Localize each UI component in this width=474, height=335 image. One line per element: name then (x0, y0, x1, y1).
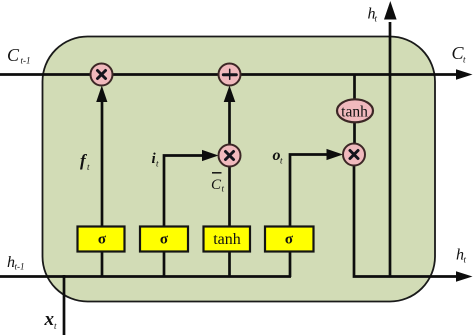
arrowhead h_t right (456, 271, 473, 282)
svg-text:tanh: tanh (213, 231, 241, 248)
sigma box 1 (78, 227, 125, 252)
cell body rounded rectangle (43, 37, 436, 302)
wire: x-circle 3 down and right to h_t output (354, 164, 458, 277)
sigma box 3 (265, 227, 314, 252)
svg-text:t-1: t-1 (21, 56, 31, 66)
wire: box4 up and right to x-circle 3 (290, 155, 328, 228)
svg-text:t: t (464, 255, 467, 265)
svg-text:x: x (44, 309, 55, 330)
svg-text:t: t (54, 321, 57, 331)
x-circle 2 (input gate multiply) (219, 145, 241, 167)
svg-text:σ: σ (285, 232, 294, 248)
svg-text:C: C (211, 177, 222, 193)
arrowhead into x-circle 2 (202, 150, 219, 161)
arrowhead into x-circle 1 (96, 86, 107, 103)
sigma box 2 (140, 227, 188, 252)
arrowhead into x-circle 3 (327, 149, 344, 160)
tanh box (204, 227, 251, 252)
wire: tanh oval to x-circle 3 (353, 122, 356, 146)
wire: box2 up and right to x-circle 2 (164, 156, 204, 228)
wire: h_t up vertical (389, 22, 392, 277)
svg-text:tanh: tanh (341, 104, 368, 121)
wire: C line (top horizontal) (0, 73, 458, 76)
arrowhead into plus circle (224, 86, 236, 103)
arrowhead h_t top (384, 1, 397, 20)
svg-text:t: t (375, 14, 378, 24)
svg-text:σ: σ (98, 232, 107, 248)
plus circle (cell state add) (219, 64, 241, 86)
wire: box1 drop (101, 251, 104, 277)
svg-text:t: t (463, 55, 466, 65)
wire: C line drop to tanh oval (353, 75, 356, 101)
wire: x_t vertical (63, 275, 66, 335)
wire: h_t-1 bottom horizontal (0, 275, 291, 278)
svg-text:C: C (7, 45, 20, 65)
wire: box3 drop (228, 251, 231, 277)
wire: box4 drop (289, 251, 292, 277)
wire: box3 up to x-circle 2 (228, 166, 231, 228)
svg-text:t-1: t-1 (15, 262, 25, 272)
x-circle 3 (output gate multiply) (343, 144, 365, 166)
tanh oval (337, 99, 373, 122)
wire: box2 drop (163, 251, 166, 277)
wire: box1 up to x-circle 1 (101, 100, 104, 228)
wire: x-circle 2 up to plus circle (228, 100, 231, 146)
arrowhead C_t right (456, 69, 473, 80)
svg-text:σ: σ (160, 232, 169, 248)
x-circle 1 (forget gate multiply) (91, 64, 113, 86)
